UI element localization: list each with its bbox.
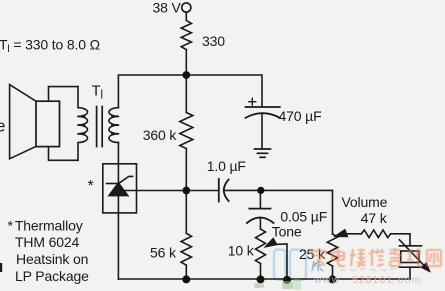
wire — [117, 196, 119, 279]
svg-text:com: com — [398, 274, 421, 286]
pot R4 wiper wire — [270, 244, 287, 279]
transformer T1 core — [97, 107, 103, 147]
svg-text:THM 6024: THM 6024 — [15, 234, 80, 250]
capacitor C3 0.05uF — [259, 190, 261, 208]
wire — [391, 234, 410, 246]
svg-text:*: * — [88, 178, 94, 195]
svg-text:0.05 µF: 0.05 µF — [280, 209, 327, 225]
svg-text:Heatsink on: Heatsink on — [16, 251, 88, 267]
wire mid rail — [120, 190, 219, 192]
watermark green smudge — [254, 279, 301, 290]
watermark small blue glyph — [312, 261, 323, 271]
amplifier device U1 package box — [103, 164, 137, 213]
svg-text:LP Package: LP Package — [15, 268, 89, 284]
cartridge XT1 stylus arrow — [399, 240, 424, 266]
node C — [257, 187, 264, 194]
svg-text:330: 330 — [202, 33, 225, 49]
node B — [182, 187, 190, 195]
watermark logo roundrect — [274, 250, 306, 280]
potentiometer R4 10k Tone — [256, 229, 266, 264]
node E — [257, 275, 265, 283]
watermark url line — [313, 274, 421, 286]
potentiometer R5 25k — [327, 234, 337, 266]
node D — [182, 275, 190, 283]
resistor R1 330 — [181, 20, 191, 49]
resistor R2 360k — [180, 113, 193, 149]
wire — [260, 264, 262, 280]
wire top rail — [118, 75, 262, 108]
transformer T1 primary winding — [78, 87, 88, 161]
svg-text:.: . — [392, 274, 395, 286]
scan artifact left edge — [0, 263, 2, 272]
wire — [185, 12, 187, 20]
resistor R6 47k Volume — [361, 230, 390, 238]
cartridge XT1 top plate — [399, 245, 421, 247]
svg-text:38 V: 38 V — [153, 0, 182, 15]
svg-text:e: e — [0, 117, 5, 136]
svg-text:360 k: 360 k — [143, 127, 178, 143]
capacitor C2 1.0uF — [219, 179, 229, 202]
svg-text:www: www — [313, 274, 340, 286]
resistor R3 56k — [181, 233, 191, 265]
pot R5 wiper wire — [344, 233, 361, 235]
svg-text:528101: 528101 — [352, 274, 393, 286]
transformer T1 secondary winding — [109, 108, 119, 143]
svg-text:1.0 µF: 1.0 µF — [207, 158, 246, 174]
node junction dots — [182, 71, 336, 284]
svg-text:.: . — [341, 274, 344, 286]
svg-text:470 µF: 470 µF — [279, 108, 322, 124]
pot R5 wiper arrowhead — [336, 230, 348, 237]
watermark chinese chars (pseudo-glyph strokes) — [312, 248, 441, 267]
cartridge XT1 bottom plate — [399, 266, 421, 268]
node F — [283, 276, 291, 284]
device U1 internal symbol — [117, 164, 119, 184]
wire — [261, 113, 263, 149]
svg-text:Tl = 330 to 8.0 Ω: Tl = 330 to 8.0 Ω — [0, 36, 100, 55]
wire bottom rail — [118, 278, 410, 280]
svg-text:Tone: Tone — [272, 223, 302, 239]
wire — [224, 189, 333, 191]
node A — [182, 71, 190, 79]
svg-text:56 k: 56 k — [150, 245, 177, 261]
svg-text:10 k: 10 k — [228, 243, 255, 259]
speaker cone — [10, 85, 36, 159]
wire main column — [185, 75, 187, 113]
wire — [117, 143, 119, 164]
svg-text:*Thermalloy: *Thermalloy — [8, 218, 83, 234]
speaker driver — [36, 101, 60, 146]
wire — [185, 265, 187, 279]
wire — [332, 266, 334, 279]
capacitor C1 470uF — [246, 107, 280, 118]
wire — [185, 50, 187, 75]
wire — [259, 218, 261, 230]
ground — [255, 149, 271, 157]
wire — [185, 149, 187, 234]
wire — [409, 267, 411, 279]
transformer T1 speaker loop wire — [49, 87, 79, 161]
svg-text:47 k: 47 k — [361, 210, 388, 226]
cartridge XT1 crystal body — [401, 251, 419, 263]
pot R4 wiper arrowhead — [266, 239, 277, 247]
node 38V supply terminal — [182, 3, 191, 12]
capacitor C1 470uF plus sign — [249, 98, 256, 105]
wire 25k branch — [332, 190, 334, 234]
node G — [329, 275, 337, 283]
svg-text:Volume: Volume — [342, 194, 388, 210]
